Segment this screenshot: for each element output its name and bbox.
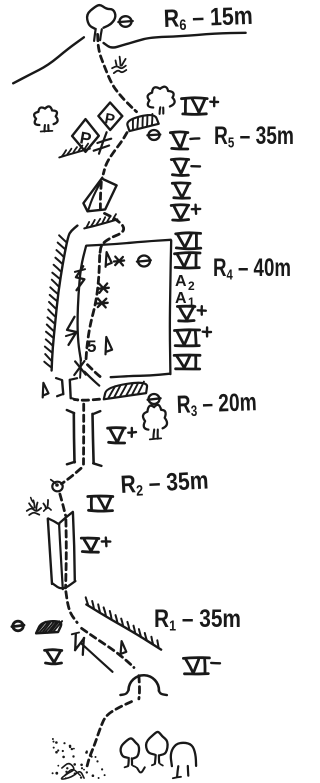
svg-text:R5 – 35m: R5 – 35m [214, 122, 294, 152]
svg-text:1: 1 [188, 295, 195, 309]
svg-text:R4 – 40m: R4 – 40m [213, 254, 291, 284]
svg-text:R6 – 15m: R6 – 15m [163, 2, 253, 35]
svg-text:2: 2 [188, 279, 195, 293]
svg-text:5: 5 [87, 337, 96, 356]
svg-text:A: A [175, 273, 187, 290]
svg-text:R3 – 20m: R3 – 20m [176, 388, 257, 420]
svg-text:R1 – 35m: R1 – 35m [154, 605, 241, 635]
svg-text:A: A [175, 290, 187, 307]
